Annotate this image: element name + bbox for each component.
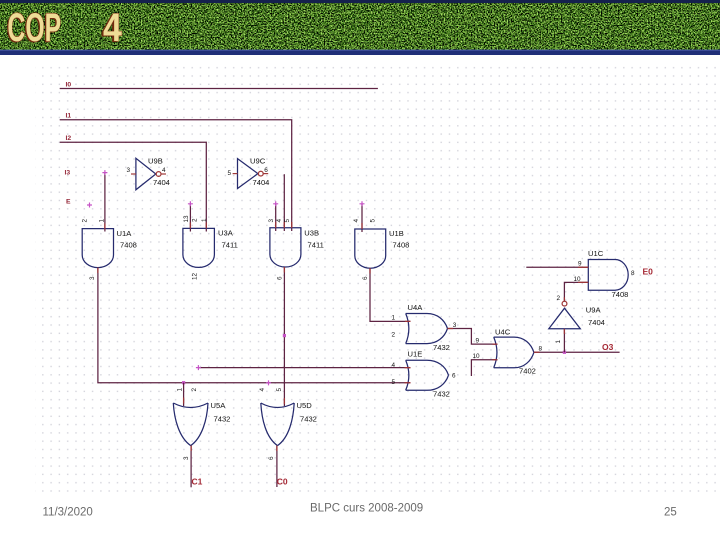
OR gate U4A <box>406 314 448 344</box>
svg-text:U1A: U1A <box>117 229 133 238</box>
svg-text:I2: I2 <box>66 135 72 142</box>
svg-text:O3: O3 <box>602 342 614 352</box>
svg-text:7408: 7408 <box>393 241 410 250</box>
dangling marker on lower bus <box>266 380 271 385</box>
header band texture <box>0 0 720 52</box>
U9B input pin stub <box>131 173 136 175</box>
svg-text:U4C: U4C <box>495 328 511 337</box>
svg-text:7408: 7408 <box>120 241 137 250</box>
inverter U9A (pointing up) <box>549 301 581 329</box>
svg-text:13: 13 <box>183 215 190 223</box>
svg-text:5: 5 <box>392 379 396 386</box>
svg-text:7411: 7411 <box>222 241 238 250</box>
AND gate U1A <box>82 229 113 268</box>
svg-text:6: 6 <box>452 373 456 380</box>
svg-text:8: 8 <box>539 346 543 353</box>
svg-text:4: 4 <box>103 4 122 49</box>
svg-text:7432: 7432 <box>433 390 450 399</box>
svg-text:U1E: U1E <box>408 350 423 359</box>
svg-text:C1: C1 <box>192 477 203 487</box>
svg-text:2: 2 <box>392 332 396 339</box>
junction dot on U3B output wire <box>283 334 286 337</box>
svg-text:7411: 7411 <box>308 241 324 250</box>
wire into U1C pin 9 (dangling left) <box>526 266 588 268</box>
dangling end marker above U1B <box>360 201 365 206</box>
svg-text:7432: 7432 <box>300 415 317 424</box>
wire stub into U1B pin 4 <box>361 204 363 232</box>
svg-text:COP: COP <box>7 6 61 50</box>
wire net I1 horizontal then down to U3B pin 5 <box>60 120 292 231</box>
OR gate U5A (pointing down) <box>173 403 208 446</box>
svg-text:1: 1 <box>177 388 184 392</box>
dangling end marker on I3 wire <box>102 170 107 175</box>
junction dot at U5A branch <box>182 381 185 384</box>
inverter U9C <box>238 159 264 189</box>
wire U1A output down then right (lower long bus) to U1E pin 5 <box>98 268 411 383</box>
svg-text:12: 12 <box>192 272 199 280</box>
svg-text:3: 3 <box>183 456 190 460</box>
svg-text:2: 2 <box>557 295 561 302</box>
svg-text:7404: 7404 <box>588 318 605 327</box>
AND gate U3A <box>183 228 215 267</box>
dangling end marker near E <box>87 203 92 208</box>
svg-text:2: 2 <box>192 218 199 222</box>
svg-text:6: 6 <box>264 167 268 174</box>
svg-text:5: 5 <box>284 219 291 223</box>
svg-text:3: 3 <box>268 219 275 223</box>
dangling end marker above U3B <box>273 201 278 206</box>
wire stub into U3A pin 13 <box>189 204 191 232</box>
svg-text:8: 8 <box>631 270 635 277</box>
AND gate U3B <box>270 228 301 267</box>
wire U4A output right then down to U4C pin 9 <box>448 329 498 345</box>
svg-text:3: 3 <box>89 276 96 280</box>
wire stub into U3B pin 3 <box>275 204 277 231</box>
wire U4C output to O3 <box>534 351 620 353</box>
junction dot at U9A input <box>563 351 566 354</box>
dangling end marker above U3A <box>188 201 193 206</box>
svg-text:3: 3 <box>127 167 131 174</box>
svg-text:7402: 7402 <box>519 367 536 376</box>
svg-text:4: 4 <box>392 362 396 369</box>
svg-text:11/3/2020: 11/3/2020 <box>43 507 93 519</box>
svg-text:5: 5 <box>370 219 377 223</box>
U9C input pin stub <box>233 173 238 175</box>
svg-text:5: 5 <box>228 170 232 177</box>
svg-text:7404: 7404 <box>253 178 270 187</box>
svg-text:7408: 7408 <box>612 290 629 299</box>
header top edge line <box>0 0 720 3</box>
svg-text:6: 6 <box>277 276 284 280</box>
svg-text:5: 5 <box>276 388 283 392</box>
svg-text:1: 1 <box>555 340 562 344</box>
svg-text:1: 1 <box>201 218 208 222</box>
wire U5D output down to C0 <box>276 446 278 487</box>
inverter U9B <box>136 158 161 190</box>
svg-text:7432: 7432 <box>433 343 450 352</box>
schematic grid dots <box>35 62 716 492</box>
wire U3B output down to U5D pin 5 <box>283 267 285 406</box>
header bottom blue strip <box>0 50 720 55</box>
dangling end marker at left of upper bus <box>196 365 201 370</box>
wire U1B output down then right to U4A pin 1 <box>370 268 411 321</box>
svg-text:6: 6 <box>362 276 369 280</box>
svg-text:U5D: U5D <box>297 401 313 410</box>
OR gate U4C <box>494 337 534 368</box>
svg-text:4: 4 <box>276 219 283 223</box>
wire from U9C output down to U3B pin 4 <box>283 174 285 231</box>
svg-text:25: 25 <box>664 507 677 519</box>
svg-text:2: 2 <box>82 219 89 223</box>
svg-text:I3: I3 <box>65 170 71 177</box>
wire net I3 vertical stub to U1A pin 1 <box>104 173 106 232</box>
svg-text:U3A: U3A <box>218 229 234 238</box>
svg-text:BLPC curs 2008-2009: BLPC curs 2008-2009 <box>310 503 423 515</box>
svg-text:1: 1 <box>392 315 396 322</box>
svg-text:U9C: U9C <box>250 157 266 166</box>
wire net I0 horizontal <box>60 88 378 90</box>
svg-text:U3B: U3B <box>304 229 319 238</box>
svg-text:1: 1 <box>99 219 106 223</box>
wire branch down to U5A pin 1 <box>183 383 185 406</box>
wire U9A input vertical <box>563 329 565 353</box>
svg-text:U4A: U4A <box>408 303 424 312</box>
AND gate U1C (pointing right) <box>588 260 628 291</box>
svg-text:U1B: U1B <box>389 229 404 238</box>
OR gate U5D (pointing down) <box>261 403 294 446</box>
red pin stubs at gate connections <box>98 222 588 451</box>
OR gate U1E <box>406 360 449 390</box>
svg-text:4: 4 <box>162 167 166 174</box>
wire U5A output down to C1 <box>190 446 192 488</box>
svg-text:2: 2 <box>191 388 198 392</box>
slide title COP 4 <box>6 4 122 52</box>
svg-text:I1: I1 <box>66 113 72 120</box>
svg-text:10: 10 <box>473 353 481 360</box>
svg-text:E0: E0 <box>643 267 654 277</box>
wire net I2 horizontal then down to U3A pin 1 <box>60 142 207 231</box>
svg-text:C0: C0 <box>277 477 288 487</box>
wire U9A output up then right to U1C pin 10 <box>564 282 588 301</box>
svg-text:6: 6 <box>268 456 275 460</box>
svg-text:4: 4 <box>353 219 360 223</box>
svg-text:9: 9 <box>476 338 480 345</box>
svg-text:U5A: U5A <box>211 401 227 410</box>
svg-text:U9B: U9B <box>148 157 163 166</box>
svg-text:U1C: U1C <box>588 249 604 258</box>
U9B output pin stub <box>161 173 166 175</box>
wire U4C pin 10 dangling <box>471 360 497 376</box>
U9C output pin stub <box>263 173 268 175</box>
svg-text:7432: 7432 <box>214 415 231 424</box>
AND gate U1B <box>355 229 386 268</box>
svg-text:4: 4 <box>259 388 266 392</box>
svg-text:9: 9 <box>578 261 582 268</box>
upper long bus wire to U1E pin 4 <box>198 367 410 369</box>
svg-text:I0: I0 <box>66 82 72 89</box>
svg-text:U9A: U9A <box>586 306 602 315</box>
svg-text:E: E <box>66 199 71 206</box>
svg-text:7404: 7404 <box>153 178 170 187</box>
